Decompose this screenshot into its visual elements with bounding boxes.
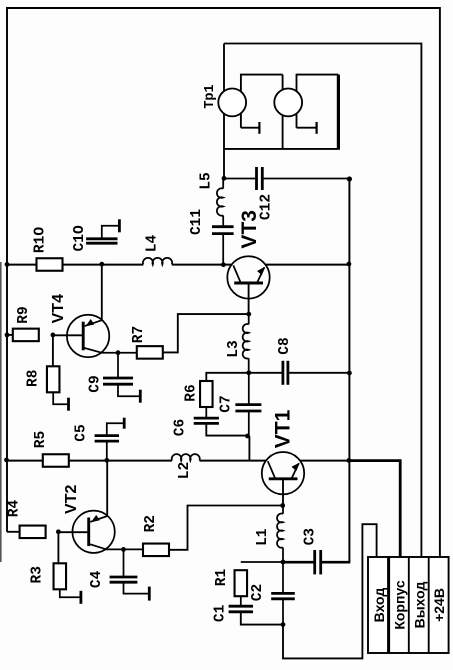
- wire VT4 base lead: [53, 334, 83, 336]
- capacitor C12: [255, 167, 258, 190]
- resistor R4: [20, 526, 46, 539]
- svg-text:C9: C9: [87, 375, 103, 392]
- connector block X1: [368, 557, 449, 653]
- svg-text:VT1: VT1: [272, 409, 295, 448]
- svg-text:C1: C1: [213, 604, 229, 622]
- ground bus vertical line: [348, 179, 350, 563]
- wire C7 top: [248, 373, 250, 405]
- wire rail B from L2 to VT1: [200, 460, 267, 462]
- capacitor C4: [110, 576, 138, 579]
- junction C8 line at ground bus: [347, 371, 352, 376]
- chassis tick C10: [118, 219, 121, 232]
- chassis tick C9: [139, 390, 142, 403]
- wire VT2 base lead: [58, 531, 88, 533]
- resistor R1: [235, 570, 248, 596]
- svg-text:C2: C2: [250, 584, 266, 601]
- svg-text:+24В: +24В: [431, 588, 447, 622]
- wire rail A from L4 to VT3: [172, 264, 232, 266]
- svg-text:Вход: Вход: [371, 588, 387, 623]
- node N2 corner junction ground line top: [347, 176, 352, 181]
- junction rail A / VT4 collector / C10: [99, 262, 104, 267]
- wire R6 branch top: [206, 373, 249, 381]
- wire VT2 emitter: [89, 544, 107, 550]
- node N1 junction of Tr1/L5/C12: [222, 176, 227, 181]
- chassis tick R3: [80, 591, 83, 604]
- svg-text:C5: C5: [74, 424, 90, 441]
- svg-text:Выход: Выход: [411, 582, 427, 629]
- junction VT2 emitter / C4 / R2: [121, 547, 126, 552]
- junction R9/R8/VT4 base: [51, 333, 56, 338]
- svg-text:R4: R4: [6, 500, 22, 518]
- resistor R5: [43, 454, 69, 467]
- resistor R9: [13, 329, 39, 342]
- wire node to R1 top: [241, 561, 283, 563]
- svg-text:C8: C8: [277, 337, 293, 354]
- wire VT3 base lead down: [248, 283, 250, 314]
- wire C5 bottom: [106, 441, 108, 461]
- svg-text:VT2: VT2: [63, 485, 80, 514]
- capacitor C7: [235, 403, 261, 406]
- wire node N1 to C12 to ground line: [224, 178, 257, 180]
- junction C1/C2 bottom input node: [281, 622, 286, 627]
- resistor R2: [143, 544, 169, 557]
- svg-text:L5: L5: [199, 172, 215, 189]
- svg-text:L3: L3: [226, 340, 242, 357]
- junction L1 bottom / R1 / C2 / C3: [281, 560, 286, 565]
- wire C11 to rail A: [222, 234, 224, 265]
- capacitor C8: [281, 361, 284, 385]
- inductor L3: [248, 314, 250, 324]
- capacitor C11: [212, 225, 234, 228]
- resistor R7: [137, 346, 163, 359]
- svg-text:C11: C11: [189, 209, 205, 235]
- svg-text:R5: R5: [33, 431, 49, 448]
- chassis tick R8: [67, 398, 70, 411]
- junction VT1 emitter line at ground bus: [347, 458, 352, 463]
- capacitor C6: [194, 417, 219, 420]
- inductor L2: [172, 454, 200, 460]
- svg-text:L1: L1: [255, 528, 271, 546]
- junction VT4 emitter / C9 / R7: [116, 350, 121, 355]
- wire C5 top chassis stub: [107, 423, 124, 435]
- wire C10 top chassis stub: [102, 226, 120, 239]
- svg-text:R6: R6: [183, 384, 199, 401]
- svg-text:L4: L4: [145, 235, 161, 253]
- wire C9 top: [117, 353, 119, 378]
- wire rail B VT1 emitter to ground bus: [300, 460, 350, 462]
- inductor L5: [222, 178, 224, 188]
- scan edge artifact left: [0, 262, 2, 562]
- junction C7/C6 bottom node: [245, 434, 250, 439]
- junction rail B / VT2 collector / C5: [104, 458, 109, 463]
- resistor R6: [200, 381, 213, 407]
- capacitor C2: [271, 592, 295, 595]
- rail A horizontal (first collector rail): [7, 264, 36, 266]
- wire C6 bottom to junction: [206, 423, 247, 435]
- chassis tick C4: [148, 587, 151, 601]
- transistor VT3: [227, 256, 269, 298]
- capacitor C10: [86, 237, 117, 240]
- svg-text:R2: R2: [143, 515, 159, 532]
- svg-text:C4: C4: [89, 570, 105, 588]
- capacitor C9: [103, 377, 133, 380]
- junction rail B at left supply line: [4, 458, 9, 463]
- wire C5/rail junction down to VT2 collector: [106, 460, 108, 516]
- transformer Tr1: [218, 44, 339, 179]
- wire C7 bottom: [248, 411, 250, 436]
- resistor R8: [47, 366, 60, 392]
- wire C8 line to ground bus: [249, 372, 283, 374]
- capacitor C3: [313, 550, 316, 574]
- transistor VT4: [67, 315, 109, 357]
- wire C4 top: [123, 549, 125, 577]
- wire +24V supply loop (left/top/right) from +24V pin: [7, 8, 440, 557]
- inductor L1: [282, 506, 284, 514]
- resistor R10: [37, 258, 63, 271]
- svg-text:L2: L2: [177, 462, 193, 479]
- junction L3 bottom / C7 / C8 / R6: [246, 370, 251, 375]
- svg-text:Тр1: Тр1: [203, 84, 218, 108]
- wire R1 to C1: [240, 596, 242, 606]
- wire R8 top: [52, 335, 54, 366]
- svg-text:R7: R7: [131, 326, 147, 343]
- wire rail A VT3 emitter to ground bus: [265, 264, 349, 266]
- wire R8 bottom chassis stub: [53, 392, 68, 404]
- chassis tick C5: [123, 418, 126, 429]
- wire R9 to left supply line: [7, 334, 13, 336]
- capacitor C1: [229, 605, 253, 608]
- wire rail B from R5 to L2: [68, 460, 172, 462]
- wire C1 bottom to input node line: [241, 612, 283, 625]
- svg-text:C7: C7: [219, 395, 235, 412]
- svg-text:C6: C6: [173, 419, 189, 436]
- wire C2 bottom: [282, 599, 284, 625]
- wire C4 bottom chassis stub: [124, 582, 150, 593]
- svg-text:VT4: VT4: [50, 294, 67, 323]
- svg-text:C3: C3: [303, 528, 319, 545]
- wire C3 line to ground bus corner (thick): [283, 561, 315, 564]
- svg-text:R8: R8: [26, 370, 42, 387]
- wire C10/rail junction down to VT4 collector: [101, 264, 103, 320]
- transistor VT2: [72, 511, 114, 553]
- junction rail A / C11: [221, 262, 226, 267]
- wire C9 bottom chassis stub: [118, 384, 140, 396]
- junction rail A at left supply line: [5, 262, 10, 267]
- rail B horizontal (second stage rail): [6, 460, 43, 462]
- junction VT3 emitter line at ground bus: [347, 262, 352, 267]
- junction VT3 base / L3 / R7 line: [246, 312, 251, 317]
- resistor R3: [54, 563, 67, 589]
- wire R7 to VT3 base node: [163, 314, 249, 352]
- capacitor C5: [95, 434, 119, 437]
- wire R3 bottom chassis stub: [60, 589, 81, 597]
- wire output line from Tr1 to output pin: [224, 44, 421, 558]
- wire C2 top: [282, 562, 284, 593]
- svg-text:Корпус: Корпус: [392, 580, 408, 630]
- wire input path from input pin: [283, 524, 377, 658]
- junction R9 at left supply line: [5, 333, 10, 338]
- transistor VT1: [262, 452, 304, 494]
- svg-text:R3: R3: [29, 566, 45, 583]
- svg-text:R1: R1: [214, 569, 230, 587]
- wire ground (Korpus) thick link rail B to connector: [349, 461, 400, 557]
- junction R4/R3/VT2 base: [56, 529, 61, 534]
- wire VT4 emitter: [83, 348, 102, 353]
- wire R4 to left supply corner: [7, 531, 20, 533]
- inductor L4: [143, 258, 172, 265]
- svg-text:VT3: VT3: [238, 210, 261, 249]
- wire VT1 base lead down: [282, 479, 284, 506]
- svg-text:C1O: C1O: [72, 225, 88, 251]
- wire R6 to C6: [205, 407, 207, 418]
- wire junction down to rail B: [248, 436, 250, 461]
- wire R2 to VT1 base node: [169, 506, 283, 550]
- svg-text:R1O: R1O: [33, 227, 49, 253]
- svg-text:R9: R9: [16, 306, 32, 323]
- junction VT1 base / L1 / R2 line: [280, 503, 285, 508]
- wire rail A from R10 to L4: [63, 264, 144, 266]
- wire R3 top: [57, 532, 59, 563]
